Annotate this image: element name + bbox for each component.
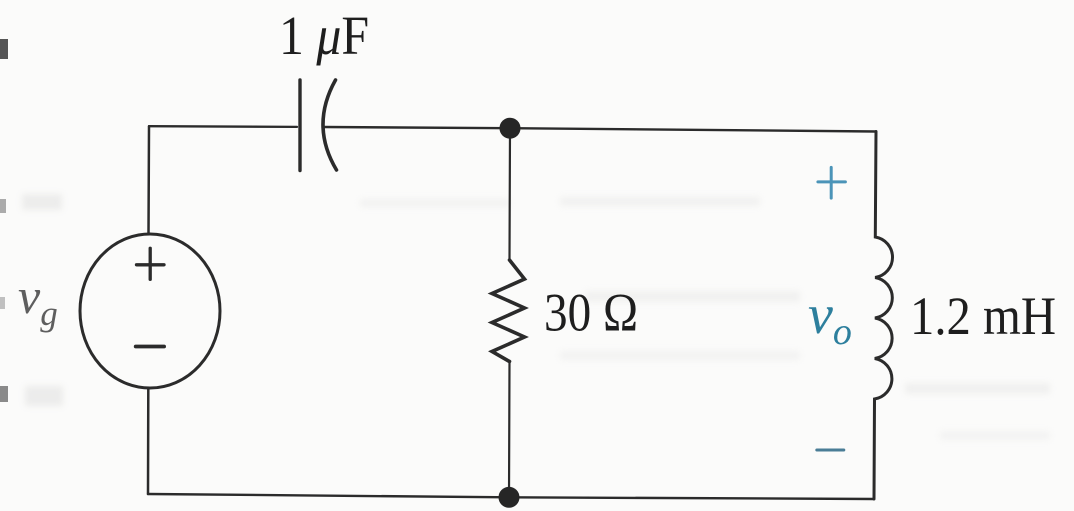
svg-text:30 Ω: 30 Ω — [544, 283, 638, 343]
svg-text:1.2 mH: 1.2 mH — [910, 286, 1056, 346]
svg-text:1 μF: 1 μF — [279, 5, 369, 66]
